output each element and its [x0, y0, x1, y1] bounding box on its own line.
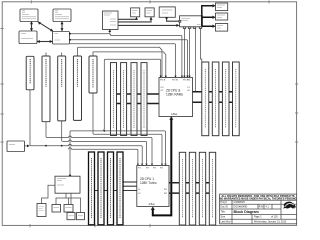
wire diagonal U1-U4	[38, 22, 53, 32]
border tick right 3	[295, 141, 298, 143]
slot connector K4 lower	[117, 152, 123, 225]
wire mid bus M4	[63, 140, 147, 166]
title block row page	[221, 216, 279, 219]
border tick top 1	[30, 0, 32, 3]
svg-text:A Bus: A Bus	[171, 113, 178, 116]
title block frame	[220, 194, 297, 224]
arrowheads into CPU1 top pins	[160, 76, 191, 78]
border tick right 1	[295, 83, 298, 85]
box U8 I/O decoder	[179, 16, 202, 29]
box X1 clock	[7, 141, 25, 152]
svg-text:Title:: Title:	[221, 210, 226, 213]
wire ram bus left 1	[111, 93, 160, 95]
box U1 top-left ROM	[20, 9, 38, 22]
border tick left 3	[0, 141, 3, 143]
wire ram top frame	[103, 59, 160, 130]
wire arrow U2-U4	[61, 21, 64, 31]
border tick left 2	[0, 83, 3, 85]
wire cpu2 bus right 1	[169, 182, 216, 184]
box U5 serial A	[131, 8, 140, 17]
border tick right 2	[295, 112, 298, 114]
title block row doc	[221, 206, 270, 209]
box jumper 2	[77, 213, 85, 220]
slot connector S3	[58, 56, 66, 121]
box jumper 1	[67, 213, 75, 220]
ram column RC2	[189, 152, 195, 225]
slot connector K2 lower	[98, 152, 104, 225]
wire lower bus link 1b	[123, 185, 137, 187]
wire mid bus M2	[94, 134, 162, 165]
pin stub above S3b	[61, 53, 63, 57]
wire thick decoder bus	[202, 4, 216, 28]
wire slot4 down to bus	[46, 122, 47, 138]
ram column RB3	[222, 62, 229, 136]
title block row proj	[221, 201, 246, 204]
wire bus L2 y39.7	[69, 39, 187, 78]
svg-text:128K Turbo: 128K Turbo	[140, 181, 157, 185]
ram column RC3	[199, 152, 205, 225]
box U2 top ROM 2	[53, 9, 71, 22]
title block warning text	[220, 195, 297, 201]
ram column RB2	[212, 62, 219, 136]
ram column RA1	[111, 63, 117, 136]
wire U8 pin 2 down	[189, 28, 191, 77]
wire ram bus right 1	[193, 91, 240, 93]
slot connector S2	[73, 56, 81, 120]
box U7 serial C	[159, 7, 175, 17]
svg-text:128K RAMs: 128K RAMs	[166, 93, 183, 97]
svg-text:NO WARRANTIES MADE UNDER PHYSI: NO WARRANTIES MADE UNDER PHYSICAL THEORI…	[220, 198, 297, 201]
wire ram bus left 2	[111, 103, 160, 105]
wire telecom to U6	[118, 17, 153, 22]
border tick top 2	[149, 0, 151, 3]
wire bus L4 y43.8	[70, 44, 176, 78]
box regulator 7805	[37, 204, 46, 217]
logo eagle	[283, 202, 296, 209]
wire slot5 down to bus	[30, 90, 31, 146]
box dip switch 2	[64, 205, 73, 213]
border tick top 3	[268, 0, 270, 3]
wire U8 pin 1 down	[183, 28, 185, 77]
pin stub above S4	[45, 53, 47, 57]
box U11 RAS decoder	[216, 24, 228, 32]
wire U8 pin 3 down	[194, 28, 196, 91]
wire mid bus M6	[69, 148, 138, 166]
box dip switch 1	[52, 205, 61, 213]
wire bus L5 y47.3 slot2 feed	[78, 47, 163, 77]
wire A-bus thick	[151, 116, 174, 215]
box U10 CAS decoder 2	[216, 13, 228, 20]
ram column RB1	[202, 62, 209, 136]
wire slot3 down to bus	[62, 121, 63, 141]
box U4 oscillator	[53, 32, 70, 45]
wire mid bus M1 keyboard feed	[69, 130, 166, 177]
svg-text:Page 1: Page 1	[254, 216, 262, 219]
keyboard encoder box	[55, 176, 80, 193]
slot connector K3 lower	[108, 152, 114, 225]
ram column RC1	[179, 152, 185, 225]
ram column RA3	[131, 63, 137, 136]
svg-text:Last Mod: Last Mod	[221, 220, 232, 223]
op-amp CPU2 secondary	[137, 166, 169, 207]
wire arrow U1-U3	[30, 21, 33, 31]
wire lower bus link 2	[89, 190, 137, 192]
wire mid bus M5	[31, 144, 142, 165]
svg-text:Size: Size	[221, 216, 226, 219]
box U9 CAS decoder 1	[216, 3, 228, 11]
slot connector K1 lower	[89, 152, 95, 225]
wire lower bus link 1	[123, 181, 137, 183]
ram column RB4	[233, 62, 240, 136]
slot connector S5	[26, 56, 34, 90]
border tick bottom 1	[29, 224, 31, 227]
svg-text:Wednesday, January 13, 2010: Wednesday, January 13, 2010	[254, 220, 287, 223]
border tick left	[0, 113, 3, 115]
arrowheads into CPU2 top pins	[137, 164, 167, 166]
wire keyboard fan	[42, 185, 81, 212]
box U6 serial B	[145, 8, 154, 17]
svg-text:COMP025: COMP025	[234, 201, 246, 204]
ram column RA4	[141, 63, 147, 136]
slot connector S4	[42, 56, 50, 122]
wire clock to bus	[24, 145, 30, 148]
svg-text:Doc ID: Doc ID	[221, 206, 229, 209]
title block row title	[221, 210, 259, 214]
wire cpu2 bus right 2	[169, 192, 216, 194]
border tick bottom 2	[94, 224, 96, 227]
wire U3-U4	[37, 40, 53, 43]
svg-text:Block Diagram: Block Diagram	[234, 210, 259, 214]
svg-text:Proj #: Proj #	[221, 201, 228, 204]
wire U7 to U8	[166, 17, 180, 21]
op-amp CPU1 main	[159, 77, 193, 117]
svg-text:Pin B: Pin B	[160, 80, 166, 82]
box U3 left RAM	[19, 31, 37, 44]
border tick left 4	[0, 28, 3, 30]
wire bus L6 y51.9 slot5 feed	[93, 52, 166, 78]
svg-text:of 120: of 120	[271, 216, 278, 219]
svg-text:DOC#6049D: DOC#6049D	[234, 206, 248, 209]
box J1 telecom connector	[103, 11, 119, 30]
wire bus L1 y33.8	[69, 29, 182, 77]
wire slot1 down to bus	[93, 93, 94, 134]
wire telecom to U8 lower	[118, 24, 179, 27]
svg-text:R.M: R.M	[259, 206, 263, 209]
wire ram bus right 2	[193, 101, 240, 103]
slot connector S1	[89, 56, 97, 93]
wire mid bus M3	[47, 136, 152, 166]
title block row date	[221, 220, 287, 223]
svg-text:Pin W: Pin W	[172, 80, 179, 82]
wire telecom to U5	[118, 17, 138, 20]
ram column RC4	[209, 152, 215, 225]
ram column RA2	[121, 63, 127, 136]
wire U8 pin 4 column feed	[201, 28, 202, 62]
border tick bottom 3	[149, 224, 151, 227]
svg-text:A Bus: A Bus	[149, 203, 156, 206]
